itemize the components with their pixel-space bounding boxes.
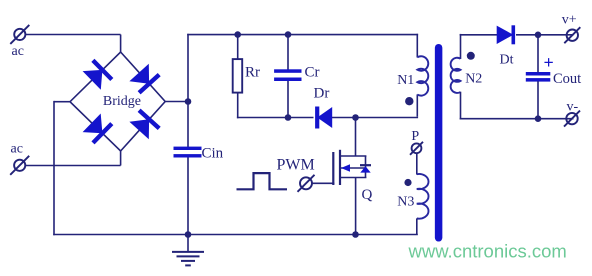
svg-text:PWM: PWM [277,157,315,174]
svg-text:Dr: Dr [314,86,330,102]
svg-text:Rr: Rr [245,65,260,81]
svg-text:v+: v+ [562,13,577,28]
svg-text:Cin: Cin [202,146,224,162]
svg-text:Bridge: Bridge [103,94,141,109]
svg-text:N1: N1 [397,73,414,88]
svg-text:Q: Q [362,187,373,203]
svg-text:Cout: Cout [553,71,581,87]
svg-text:N3: N3 [397,195,414,210]
svg-text:Dt: Dt [500,53,514,68]
svg-text:Cr: Cr [305,65,320,81]
svg-text:ac: ac [12,44,24,59]
svg-text:N2: N2 [465,72,482,87]
svg-text:ac: ac [11,142,23,157]
svg-text:www.cntronics.com: www.cntronics.com [408,241,567,262]
svg-text:+: + [544,53,554,73]
svg-text:P: P [411,129,419,144]
svg-text:v-: v- [567,100,579,115]
